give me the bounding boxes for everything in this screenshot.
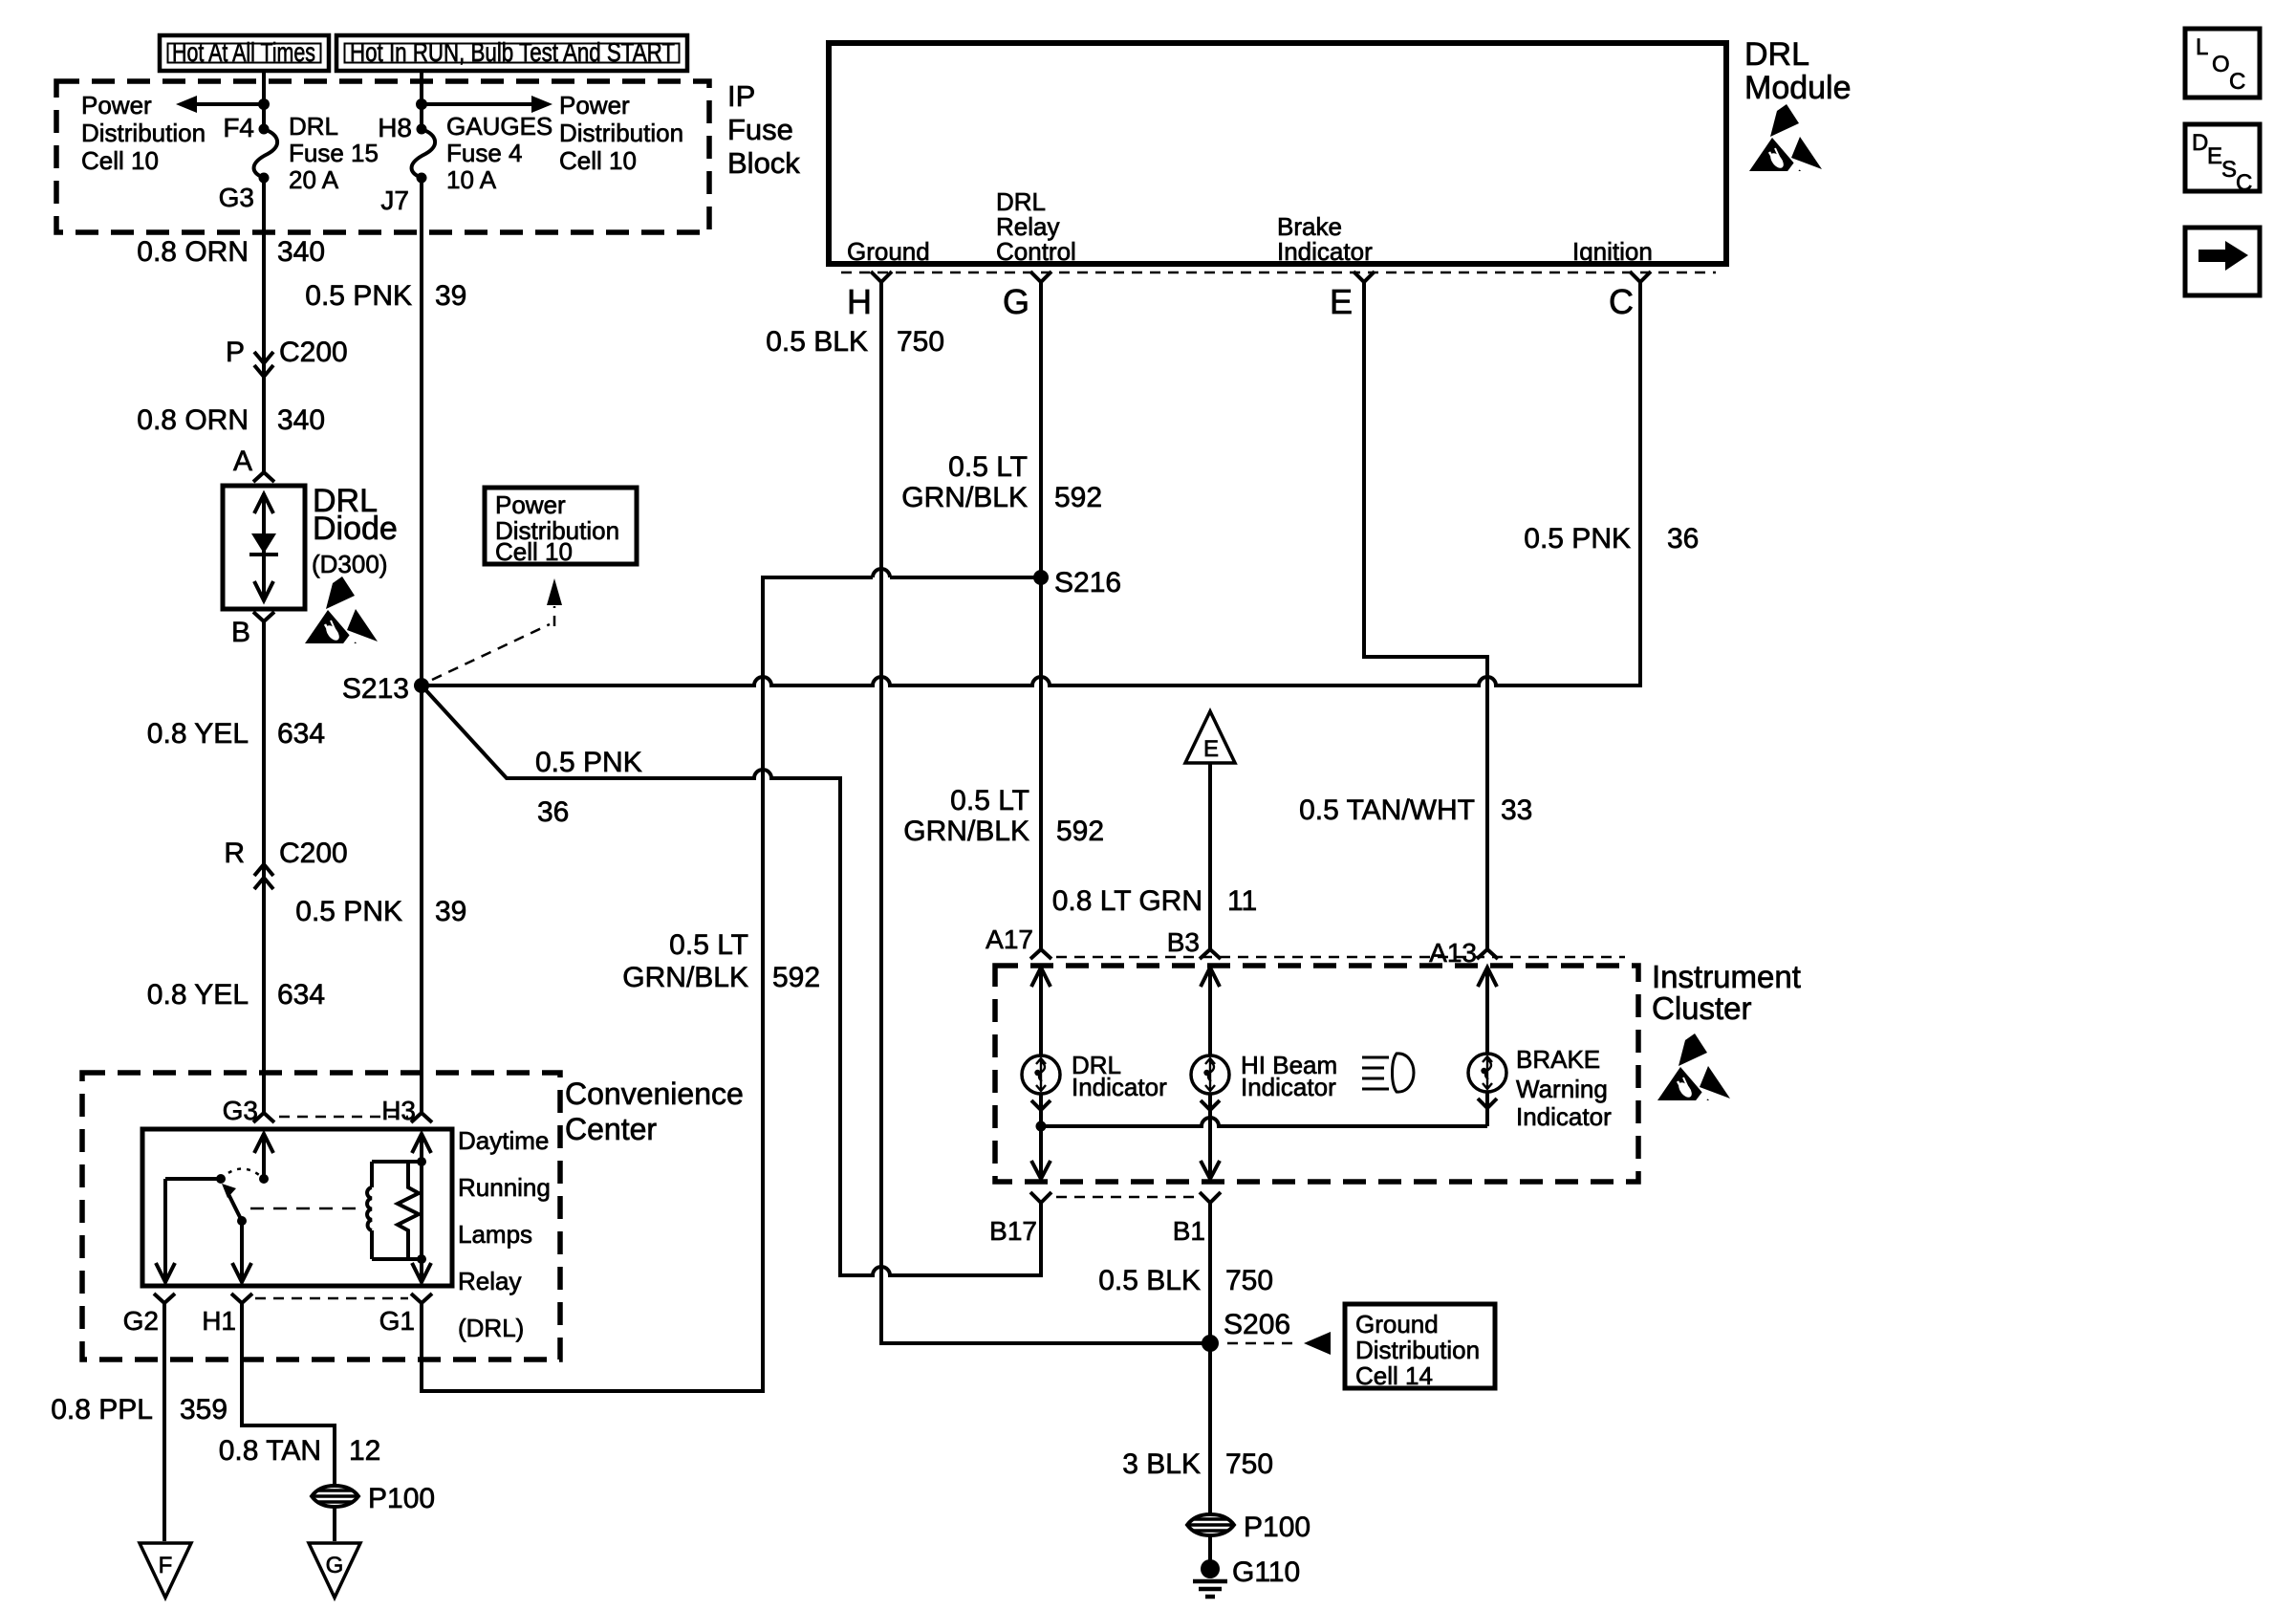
svg-text:0.5 LT: 0.5 LT [669, 929, 748, 961]
svg-text:E: E [2207, 143, 2222, 169]
svg-text:P: P [226, 337, 245, 368]
wire arrow to Power Distribution left [197, 102, 264, 106]
pin B17 connector [1030, 1192, 1051, 1203]
splice S213 [414, 678, 429, 693]
reference box Power Distribution Cell 10 [485, 488, 637, 564]
svg-text:H8: H8 [378, 113, 412, 142]
svg-text:12: 12 [349, 1435, 380, 1467]
svg-text:0.5 PNK: 0.5 PNK [1524, 523, 1631, 555]
connector C200 pin R [254, 864, 273, 889]
label box "Hot At All Times" [160, 35, 329, 71]
svg-text:634: 634 [277, 979, 325, 1011]
relay box [142, 1129, 452, 1286]
svg-text:S: S [2221, 157, 2237, 183]
relay G3 internal arrow and contact [254, 1134, 273, 1179]
svg-text:0.5 BLK: 0.5 BLK [1098, 1265, 1201, 1296]
svg-text:G3: G3 [219, 183, 254, 212]
svg-text:750: 750 [897, 326, 944, 358]
svg-text:G2: G2 [123, 1306, 159, 1336]
svg-text:H: H [847, 282, 872, 321]
svg-text:Instrument: Instrument [1652, 959, 1801, 994]
convenience center dashed box [82, 1073, 560, 1360]
svg-text:(D300): (D300) [312, 550, 387, 578]
pin H connector [871, 272, 892, 282]
pin B1 connector [1200, 1192, 1221, 1203]
svg-text:B: B [231, 617, 250, 648]
svg-text:634: 634 [277, 718, 325, 750]
label box "Hot In RUN, Bulb Test And START" [336, 35, 687, 71]
wire from Hot In RUN into fuse H8 [420, 71, 423, 129]
svg-text:Fuse 15: Fuse 15 [289, 139, 379, 167]
svg-text:S213: S213 [342, 673, 409, 705]
page connector triangle G [309, 1543, 360, 1598]
relay connector dashed line bottom [255, 1297, 408, 1300]
IP fuse block dashed box [56, 81, 709, 232]
svg-text:10 A: 10 A [446, 165, 497, 194]
relay H3/G1 internal vertical [412, 1134, 431, 1282]
svg-text:A: A [233, 446, 252, 477]
svg-text:Hot At All Times: Hot At All Times [172, 37, 315, 67]
splice S206 [1202, 1335, 1219, 1352]
svg-text:GRN/BLK: GRN/BLK [903, 816, 1029, 847]
pin E connector [1354, 272, 1375, 282]
svg-text:592: 592 [1056, 816, 1104, 847]
svg-text:Ground: Ground [1355, 1310, 1439, 1338]
svg-text:Power: Power [559, 91, 630, 120]
svg-text:750: 750 [1225, 1265, 1273, 1296]
wire 0.5 BLK 750 module ground H to S206 [881, 282, 1210, 1343]
pin A17 connector [1030, 949, 1051, 959]
svg-text:GAUGES: GAUGES [446, 112, 552, 141]
svg-text:Power: Power [495, 490, 566, 519]
svg-text:G110: G110 [1232, 1556, 1300, 1588]
wire 0.5 BLK 750 from B1 to S206 [1208, 1203, 1212, 1343]
svg-text:3 BLK: 3 BLK [1122, 1448, 1201, 1480]
svg-text:Convenience: Convenience [565, 1077, 744, 1111]
relay G2 internal wire [156, 1179, 175, 1282]
svg-text:0.5 BLK: 0.5 BLK [766, 326, 868, 358]
DRL module box [829, 43, 1726, 264]
svg-text:Indicator: Indicator [1072, 1073, 1167, 1101]
cluster connector dashed line top [1056, 956, 1625, 959]
icon box DESC [2185, 124, 2260, 196]
grommet P100 (left) [312, 1486, 358, 1507]
fuse F4/G3 DRL Fuse 15 20 A [259, 124, 270, 135]
svg-text:DRL: DRL [289, 112, 338, 141]
svg-text:Block: Block [727, 146, 800, 180]
splice S216 [1033, 570, 1049, 585]
svg-text:Control: Control [996, 237, 1076, 266]
svg-text:Cluster: Cluster [1652, 990, 1752, 1026]
svg-text:G: G [1003, 282, 1029, 321]
svg-text:Cell 10: Cell 10 [81, 146, 159, 175]
ESD symbol at diode [305, 577, 378, 652]
svg-text:G1: G1 [379, 1306, 415, 1336]
dashed reference from S206 to Ground Distribution Cell 14 [1227, 1342, 1296, 1345]
ground G110 [1201, 1559, 1220, 1578]
svg-text:11: 11 [1227, 885, 1257, 917]
svg-text:C: C [2229, 69, 2245, 95]
wire 0.5 PNK 36 from S213 to instrument cluster B17 [422, 685, 1041, 1275]
svg-text:Running: Running [458, 1173, 551, 1202]
relay connector dashed line top [279, 1116, 408, 1119]
diode element inside D300 [254, 493, 273, 601]
svg-text:359: 359 [180, 1394, 227, 1425]
page connector triangle F [140, 1543, 191, 1598]
wire below HI Beam indicator to B1 [1201, 1094, 1220, 1179]
relay resistor [398, 1162, 419, 1259]
svg-text:Warning: Warning [1516, 1075, 1608, 1103]
svg-text:39: 39 [435, 280, 466, 312]
svg-text:Indicator: Indicator [1241, 1073, 1336, 1101]
svg-text:Ignition: Ignition [1572, 237, 1653, 266]
svg-text:P100: P100 [1244, 1512, 1310, 1543]
pin G connector [1030, 272, 1051, 282]
node junction at right feed [416, 98, 427, 110]
svg-text:0.5 LT: 0.5 LT [948, 451, 1028, 483]
svg-text:Fuse 4: Fuse 4 [446, 139, 523, 167]
wire S213 to DRL module pin C (0.5 PNK 36) with hops [422, 282, 1640, 685]
wire junction to BRAKE warning indicator with hop [1041, 1118, 1487, 1126]
svg-text:340: 340 [277, 404, 325, 436]
svg-text:P100: P100 [368, 1483, 435, 1514]
svg-text:J7: J7 [380, 185, 409, 215]
svg-text:0.5 PNK: 0.5 PNK [305, 280, 412, 312]
svg-text:592: 592 [1054, 482, 1102, 513]
svg-text:H3: H3 [381, 1096, 416, 1125]
svg-text:750: 750 [1225, 1448, 1273, 1480]
connector C200 pin P [254, 352, 273, 377]
relay H1 internal wire [232, 1221, 251, 1282]
svg-text:R: R [224, 838, 245, 869]
node junction at left feed [258, 98, 270, 110]
svg-text:C200: C200 [279, 337, 348, 368]
lamp BRAKE Warning Indicator [1485, 968, 1489, 1054]
wire 0.5 TAN/WHT 33 from pin E to cluster A13 [1364, 282, 1487, 949]
svg-text:Hot In RUN, Bulb Test And STAR: Hot In RUN, Bulb Test And START [350, 37, 675, 67]
headlamp icon [1362, 1054, 1414, 1092]
relay switch dashed throw arc [221, 1169, 264, 1180]
ESD symbol at instrument cluster [1657, 1033, 1730, 1109]
lamp DRL Indicator [1039, 968, 1043, 1055]
svg-text:0.5 PNK: 0.5 PNK [295, 896, 402, 927]
svg-text:F: F [159, 1553, 173, 1578]
svg-text:E: E [1330, 282, 1353, 321]
svg-text:Daytime: Daytime [458, 1126, 549, 1155]
svg-text:0.8 ORN: 0.8 ORN [137, 404, 249, 436]
reference box Ground Distribution Cell 14 [1345, 1304, 1495, 1388]
svg-text:Diode: Diode [313, 511, 398, 547]
page connector triangle E [1185, 711, 1235, 763]
svg-text:D: D [2192, 130, 2208, 156]
wire P100 to G110 [1208, 1536, 1212, 1560]
wire S216 branch to DRL relay G1 [422, 569, 1041, 1391]
svg-text:A17: A17 [986, 925, 1033, 954]
svg-text:Distribution: Distribution [1355, 1336, 1480, 1364]
svg-text:IP: IP [727, 79, 755, 113]
svg-text:GRN/BLK: GRN/BLK [901, 482, 1028, 513]
svg-text:0.5 PNK: 0.5 PNK [535, 747, 642, 778]
svg-text:C200: C200 [279, 838, 348, 869]
svg-text:F4: F4 [223, 113, 254, 142]
svg-text:B1: B1 [1173, 1216, 1205, 1246]
svg-text:Distribution: Distribution [559, 119, 683, 147]
svg-text:Module: Module [1744, 70, 1852, 106]
svg-text:GRN/BLK: GRN/BLK [622, 962, 748, 993]
svg-text:0.8 PPL: 0.8 PPL [51, 1394, 153, 1425]
svg-text:592: 592 [772, 962, 820, 993]
svg-text:B3: B3 [1167, 927, 1200, 957]
pin G2 connector (relay bottom) [154, 1294, 175, 1303]
svg-text:Power: Power [81, 91, 152, 120]
wire 0.8 LT GRN 11 from triangle E to cluster B3 [1208, 763, 1212, 949]
svg-text:0.5 TAN/WHT: 0.5 TAN/WHT [1299, 794, 1475, 826]
wire from Hot At All Times into fuse F4 [262, 71, 266, 129]
svg-text:L: L [2196, 34, 2208, 60]
svg-text:E: E [1203, 736, 1219, 762]
wire 0.8 TAN 12 from H1 to P100 [242, 1303, 335, 1485]
svg-text:Cell 10: Cell 10 [495, 537, 573, 566]
svg-text:Distribution: Distribution [81, 119, 206, 147]
module connector dashed line [841, 272, 1716, 274]
pin H1 connector (relay bottom) [231, 1294, 252, 1303]
wire 3 BLK 750 from S206 to P100 [1208, 1343, 1212, 1514]
relay actuation dashed link [250, 1207, 361, 1210]
svg-text:S216: S216 [1054, 567, 1121, 598]
dashed reference from S213 to Power Distribution Cell 10 [432, 606, 554, 680]
svg-text:A13: A13 [1429, 938, 1477, 968]
svg-text:Indicator: Indicator [1277, 237, 1373, 266]
pin G3 connector (relay top) [253, 1113, 274, 1122]
pin G1 connector (relay bottom) [411, 1294, 432, 1303]
wire arrow to Power Distribution right [422, 102, 531, 106]
svg-text:DRL: DRL [1744, 36, 1809, 73]
wire below BRAKE indicator [1478, 1092, 1497, 1126]
svg-text:0.8 TAN: 0.8 TAN [219, 1435, 321, 1467]
svg-text:C: C [1609, 282, 1634, 321]
svg-text:33: 33 [1501, 794, 1532, 826]
wire P100 to page connector G [333, 1508, 336, 1541]
svg-text:39: 39 [435, 896, 466, 927]
svg-text:Ground: Ground [847, 237, 930, 266]
svg-text:(DRL): (DRL) [458, 1314, 524, 1342]
diode D300 box [223, 486, 305, 609]
relay switch movable arm [228, 1194, 242, 1221]
icon box LOC [2185, 29, 2260, 98]
wire 0.8 YEL 634 from diode to C200 R [262, 621, 266, 1113]
svg-text:Cell 10: Cell 10 [559, 146, 637, 175]
relay switch pole [165, 1177, 221, 1181]
wire 0.8 ORN 340 from G3 down to DRL diode [262, 178, 266, 475]
svg-text:Lamps: Lamps [458, 1220, 532, 1249]
wire 0.5 PNK 39 from J7 down to relay H3 [420, 178, 423, 1113]
svg-text:20 A: 20 A [289, 165, 339, 194]
svg-text:Indicator: Indicator [1516, 1102, 1612, 1131]
svg-text:Cell 14: Cell 14 [1355, 1361, 1433, 1390]
svg-text:B17: B17 [989, 1216, 1037, 1246]
svg-text:0.8 YEL: 0.8 YEL [147, 718, 249, 750]
svg-text:Fuse: Fuse [727, 113, 793, 146]
wire 0.8 PPL 359 from G2 to page connector F [162, 1303, 166, 1541]
pin H3 connector (relay top) [411, 1113, 432, 1122]
node junction below DRL indicator [1036, 1121, 1047, 1132]
svg-text:0.8 YEL: 0.8 YEL [147, 979, 249, 1011]
svg-text:G: G [326, 1553, 344, 1578]
cluster connector dashed line bottom [1056, 1196, 1200, 1199]
icon box arrow [2185, 228, 2260, 295]
relay coil [372, 1162, 422, 1259]
pin B3 connector [1200, 949, 1221, 959]
wire below DRL indicator [1031, 1094, 1051, 1179]
svg-text:G3: G3 [223, 1096, 258, 1125]
svg-text:Relay: Relay [458, 1267, 521, 1295]
svg-text:O: O [2212, 52, 2230, 77]
node B below diode [253, 612, 274, 621]
svg-text:0.8 LT GRN: 0.8 LT GRN [1052, 885, 1202, 917]
wire 0.5 LT GRN/BLK 592 from pin G to S216 [1039, 282, 1043, 949]
instrument cluster dashed box [995, 966, 1638, 1182]
fuse H8/J7 GAUGES Fuse 4 10 A [417, 124, 427, 135]
svg-text:340: 340 [277, 236, 325, 268]
svg-text:36: 36 [537, 796, 569, 828]
svg-text:C: C [2236, 170, 2252, 196]
ESD symbol at DRL module [1749, 104, 1822, 180]
svg-text:36: 36 [1667, 523, 1699, 555]
lamp HI Beam Indicator [1208, 968, 1212, 1055]
svg-text:S206: S206 [1224, 1309, 1290, 1340]
pin C connector [1630, 272, 1651, 282]
svg-text:Center: Center [565, 1112, 657, 1146]
pin A13 connector [1477, 949, 1498, 959]
svg-text:0.8 ORN: 0.8 ORN [137, 236, 249, 268]
svg-text:BRAKE: BRAKE [1516, 1045, 1600, 1074]
svg-text:0.5 LT: 0.5 LT [950, 785, 1029, 816]
grommet P100 (right) [1187, 1514, 1234, 1535]
svg-text:H1: H1 [202, 1306, 236, 1336]
